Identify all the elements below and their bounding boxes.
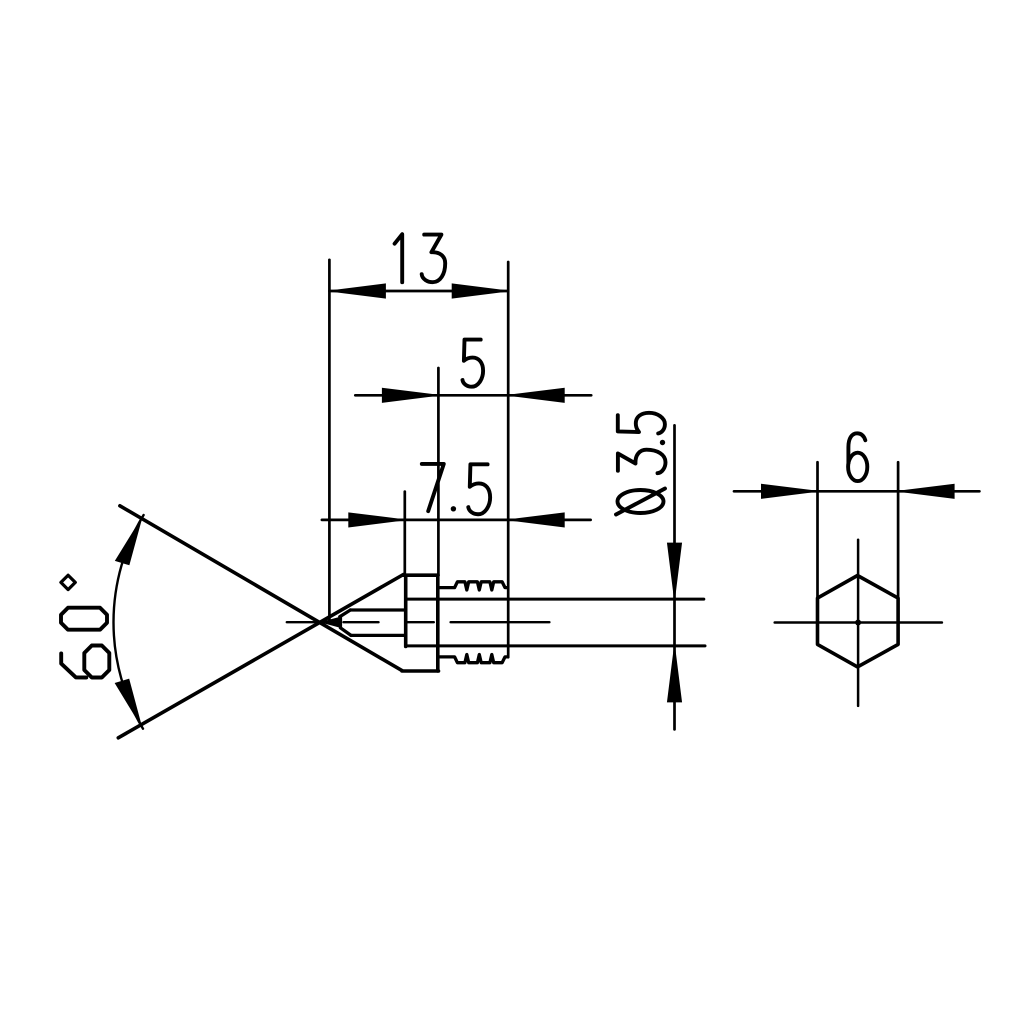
dim 13 left arrow — [329, 284, 385, 298]
dim 6 left arrow — [762, 484, 818, 498]
dim 13 dimension line — [329, 290, 508, 293]
dim 5 right arrow — [508, 388, 564, 402]
dim 6 right arrow — [898, 484, 954, 498]
dim 7.5 right arrow — [508, 513, 564, 527]
centerline dash 4 — [451, 621, 550, 623]
thread profile bottom — [440, 655, 508, 663]
60-deg arc upper arrow — [116, 518, 142, 565]
dim 6 left extension line — [816, 462, 819, 598]
dim 5 left arrow — [382, 388, 438, 402]
bore line top (O3.5 extension) — [406, 598, 704, 601]
hexagon outline — [818, 576, 899, 667]
dim 5 dimension line — [355, 394, 591, 397]
60-deg dimension arc — [114, 515, 144, 729]
dim 13 left extension line — [328, 260, 331, 623]
centerline dash 2 — [344, 621, 379, 623]
hex vertical centerline — [857, 540, 860, 706]
orifice arrow at nozzle tip — [322, 617, 342, 628]
nozzle cone upper edge / 60-deg construction line 2 — [118, 575, 403, 738]
inner cone top line — [340, 610, 351, 617]
dim 13 right arrow — [452, 284, 508, 298]
text 6 — [848, 433, 867, 481]
hex horizontal centerline — [775, 621, 942, 624]
thread profile top — [440, 582, 508, 590]
text 13 — [395, 234, 446, 282]
nozzle flange bottom edge — [402, 669, 439, 673]
centerline dash 3 — [407, 621, 434, 623]
dim O3.5 dimension line — [673, 425, 676, 729]
60-deg arc lower arrow — [115, 679, 141, 726]
inner bore bottom line — [351, 634, 406, 637]
nozzle inlet end face / right extension line — [507, 262, 510, 657]
nozzle flange top edge — [403, 573, 439, 577]
dim 7.5 dimension line — [322, 519, 591, 522]
inner bore top line — [350, 608, 405, 611]
dim O3.5 upper arrow — [668, 543, 682, 599]
nozzle cone lower edge / 60-deg construction line 1 — [120, 506, 402, 671]
hex center dot — [855, 620, 861, 626]
nozzle flange left face — [404, 575, 408, 646]
nozzle flange right face — [436, 575, 440, 671]
text 60deg rotated — [61, 575, 109, 677]
text O3.5 rotated — [616, 413, 666, 515]
inner cone bottom line — [340, 628, 351, 636]
dim O3.5 lower arrow — [668, 646, 682, 702]
text 7.5 — [422, 464, 490, 514]
text 5 — [463, 340, 484, 387]
bore line bottom (O3.5 extension) — [406, 644, 705, 647]
dim 7.5 left extension line — [403, 492, 406, 576]
dim 6 right extension line — [897, 462, 900, 598]
dim 6 dimension line — [734, 490, 979, 493]
centerline dash 1 — [287, 621, 316, 623]
dim 7.5 left arrow — [349, 513, 405, 527]
dim 5 left extension line — [437, 368, 440, 575]
